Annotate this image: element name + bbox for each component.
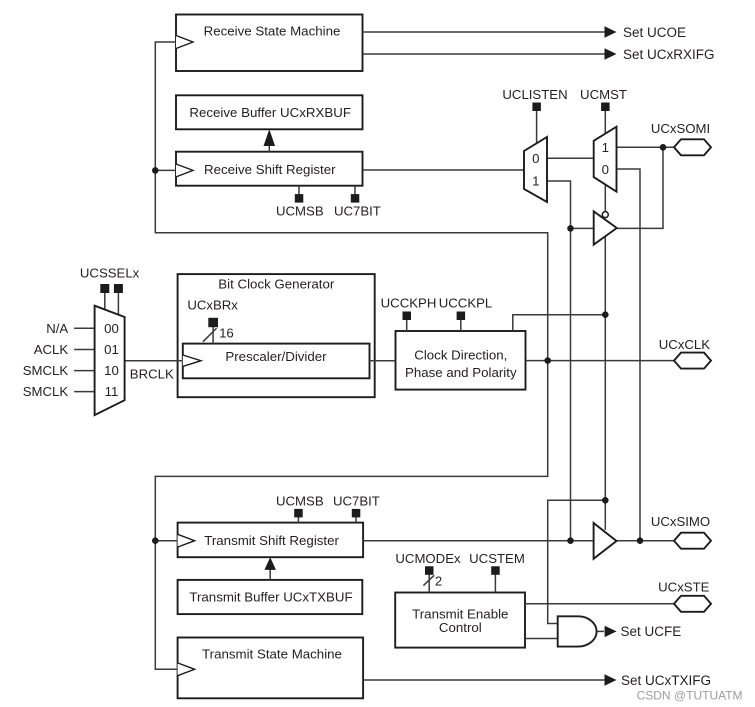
svg-text:Transmit Buffer UCxTXBUF: Transmit Buffer UCxTXBUF [189, 590, 352, 605]
svg-text:SMCLK: SMCLK [23, 363, 69, 378]
svg-text:Bit Clock Generator: Bit Clock Generator [218, 276, 335, 291]
svg-text:UCxSOMI: UCxSOMI [651, 121, 710, 136]
svg-text:0: 0 [602, 162, 609, 177]
svg-text:10: 10 [104, 363, 119, 378]
svg-text:Receive State Machine: Receive State Machine [204, 23, 341, 38]
svg-text:Set UCOE: Set UCOE [623, 25, 686, 40]
svg-text:UCxSIMO: UCxSIMO [651, 514, 710, 529]
svg-text:BRCLK: BRCLK [130, 366, 174, 381]
svg-text:Phase and Polarity: Phase and Polarity [405, 365, 517, 380]
svg-text:UCMST: UCMST [580, 87, 627, 102]
svg-text:CSDN @TUTUATM: CSDN @TUTUATM [637, 689, 743, 703]
svg-text:16: 16 [219, 325, 234, 340]
svg-text:Receive Buffer UCxRXBUF: Receive Buffer UCxRXBUF [189, 105, 351, 120]
svg-text:1: 1 [602, 140, 609, 155]
svg-text:2: 2 [435, 573, 442, 588]
svg-text:UCSTEM: UCSTEM [469, 551, 525, 566]
svg-text:01: 01 [104, 342, 119, 357]
svg-text:UCxSTE: UCxSTE [658, 580, 709, 595]
svg-text:ACLK: ACLK [34, 342, 69, 357]
svg-text:UCMSB: UCMSB [276, 493, 324, 508]
svg-text:Receive Shift Register: Receive Shift Register [204, 162, 336, 177]
svg-text:Set UCFE: Set UCFE [621, 624, 682, 639]
svg-text:00: 00 [104, 321, 119, 336]
svg-text:Prescaler/Divider: Prescaler/Divider [225, 349, 327, 364]
svg-text:UCxCLK: UCxCLK [659, 337, 710, 352]
svg-text:Transmit Shift Register: Transmit Shift Register [204, 533, 339, 548]
svg-text:UC7BIT: UC7BIT [334, 204, 381, 219]
svg-text:SMCLK: SMCLK [23, 384, 69, 399]
svg-text:N/A: N/A [46, 321, 68, 336]
svg-text:UC7BIT: UC7BIT [333, 493, 380, 508]
svg-text:UCxBRx: UCxBRx [187, 298, 238, 313]
svg-text:UCMODEx: UCMODEx [395, 551, 461, 566]
svg-text:UCSSELx: UCSSELx [80, 266, 140, 281]
svg-text:UCCKPH: UCCKPH [381, 296, 437, 311]
svg-text:Set UCxRXIFG: Set UCxRXIFG [623, 47, 715, 62]
svg-text:Control: Control [439, 620, 482, 635]
svg-text:Transmit State Machine: Transmit State Machine [202, 646, 342, 661]
svg-text:1: 1 [532, 174, 539, 189]
svg-text:0: 0 [532, 151, 539, 166]
svg-text:Set UCxTXIFG: Set UCxTXIFG [621, 673, 711, 688]
svg-text:Clock Direction,: Clock Direction, [414, 347, 507, 362]
svg-text:UCLISTEN: UCLISTEN [502, 87, 567, 102]
svg-text:UCCKPL: UCCKPL [439, 296, 493, 311]
svg-text:11: 11 [105, 384, 119, 399]
svg-text:UCMSB: UCMSB [276, 204, 324, 219]
